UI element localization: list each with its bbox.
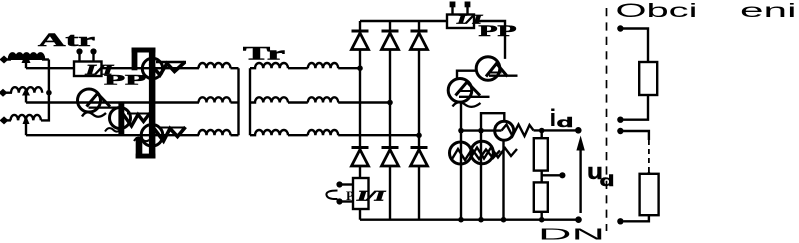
divider tap wire bbox=[542, 174, 563, 176]
load wire RL2 top bbox=[648, 172, 650, 174]
ammeter A2 bbox=[448, 79, 472, 103]
junction dot leg3 phase W bbox=[416, 133, 422, 139]
primary star wire W bbox=[231, 134, 239, 136]
svg-text:Tr: Tr bbox=[243, 44, 286, 65]
secondary wire W to bridge bbox=[338, 134, 419, 136]
wire L1 coil end to common node bbox=[42, 58, 49, 60]
svg-text:I/I: I/I bbox=[355, 189, 387, 205]
ammeter A left bbox=[78, 89, 101, 112]
secondary winding U coil 2 bbox=[308, 63, 338, 68]
svg-text:Obci: Obci bbox=[616, 0, 698, 22]
diode D5 cathode bar bbox=[411, 30, 428, 33]
transducer I/I input bbox=[74, 62, 102, 77]
junction dot leg2 phase V bbox=[387, 100, 393, 106]
svg-text:d: d bbox=[557, 114, 574, 130]
ammeter A left underline bbox=[89, 106, 117, 108]
transducer input stub 1 bbox=[78, 53, 80, 62]
bridge leg 2 bbox=[389, 21, 391, 220]
voltmeter V1 tilde bbox=[140, 75, 153, 78]
voltmeter V1 letter top bar bbox=[156, 61, 186, 63]
bridge top bus bbox=[360, 20, 448, 22]
ammeter A1 underline bbox=[489, 75, 518, 77]
panel bar: top bridge bbox=[132, 48, 156, 53]
bridge leg 1 bbox=[359, 21, 361, 178]
output rail phase V bbox=[26, 101, 199, 103]
junction dot bus divider bbox=[539, 217, 545, 223]
svg-text:i: i bbox=[550, 105, 557, 132]
junction dot common/L2 bbox=[46, 90, 52, 96]
panel bar: long post bbox=[149, 48, 156, 159]
output rail phase W bbox=[26, 134, 199, 136]
transducer bottom stub dot 1 bbox=[336, 181, 342, 187]
load terminal dot top bbox=[617, 25, 623, 31]
voltmeter V1 bbox=[142, 58, 162, 78]
diode D1 bbox=[352, 33, 369, 50]
ammeter A left tilde bbox=[82, 112, 106, 117]
secondary winding V coil 1 bbox=[250, 97, 288, 102]
wire bottom transducer to bus bbox=[359, 209, 361, 220]
junction dot id rail left bbox=[458, 128, 464, 134]
panel cup bottom bbox=[136, 154, 156, 159]
autotransformer winding L2 bbox=[11, 87, 42, 93]
ammeter A2 tilde bbox=[453, 102, 481, 107]
svg-text:eni: eni bbox=[740, 0, 797, 22]
voltmeter V1 letter bbox=[150, 62, 185, 75]
ud arrowhead bbox=[576, 136, 584, 151]
bus end dot bbox=[575, 216, 582, 223]
load wire bottom bbox=[624, 215, 649, 221]
shunt meter leg bbox=[502, 141, 504, 220]
wire top transducer to ammeter A1 bbox=[474, 21, 505, 59]
voltmeter V3 letter top bar bbox=[160, 127, 184, 129]
wire L1 input bbox=[7, 58, 11, 60]
junction dot divider top bbox=[539, 128, 545, 134]
svg-text:PP: PP bbox=[479, 23, 517, 40]
meter M1 bbox=[450, 142, 472, 164]
top transducer stub dot 2 bbox=[465, 2, 471, 8]
load terminal dot mid1 bbox=[617, 117, 623, 123]
transducer I/I bottom bbox=[353, 178, 369, 209]
shunt bypass wire bbox=[481, 113, 504, 130]
secondary winding V coil 2 bbox=[308, 97, 338, 102]
wire A1 to A2 bbox=[457, 71, 477, 79]
panel cup left leg bbox=[136, 137, 143, 159]
transducer bottom stub 2 bbox=[341, 200, 353, 202]
diode D3 cathode bar bbox=[382, 30, 399, 33]
id rail right segment bbox=[534, 129, 579, 131]
svg-text:Atr: Atr bbox=[38, 30, 96, 51]
divider tap dot bbox=[559, 172, 565, 178]
load wire mid bbox=[620, 131, 649, 140]
junction dot bus M2 bbox=[478, 217, 484, 223]
ammeter A1 bbox=[476, 57, 500, 81]
top transducer stub 2 bbox=[466, 6, 468, 15]
primary star wire V bbox=[231, 101, 239, 103]
transformer primary winding W bbox=[199, 130, 231, 135]
voltmeter V3 letter bbox=[154, 127, 186, 141]
transducer input stub 2 bbox=[92, 53, 94, 62]
junction dot bypass bbox=[478, 128, 484, 134]
shunt meter bbox=[495, 121, 514, 140]
transducer input stub dot 2 bbox=[90, 48, 96, 54]
voltmeter V2 letter top bar bbox=[127, 113, 148, 115]
secondary winding U coil 1 bbox=[250, 63, 288, 68]
meter M2 zigzag bbox=[471, 148, 517, 159]
junction dot bus M1 bbox=[458, 217, 464, 223]
common connection wire bbox=[41, 60, 49, 121]
bridge leg 3 bbox=[418, 21, 420, 220]
svg-text:PP: PP bbox=[104, 73, 146, 89]
resistor R2 divider bbox=[534, 182, 548, 211]
secondary winding W coil 2 bbox=[308, 130, 338, 135]
diode D4 bbox=[382, 150, 399, 167]
wire divider bottom bbox=[541, 212, 543, 220]
ammeter A2 letter bbox=[456, 82, 481, 96]
shunt resistor zigzag bbox=[502, 125, 534, 137]
autotransformer winding L1 bbox=[9, 53, 44, 59]
voltmeter V3 bbox=[141, 125, 163, 147]
diode D2 bbox=[352, 150, 369, 167]
primary star wire U bbox=[231, 67, 239, 69]
wire tap L3 bbox=[25, 124, 27, 136]
diode D4 cathode bar bbox=[382, 146, 399, 149]
voltmeter V3 tilde bbox=[134, 138, 151, 142]
wire L3 input bbox=[7, 119, 11, 121]
load wire top bbox=[620, 29, 648, 63]
load resistor RL1 bbox=[639, 62, 657, 95]
load terminal dot bottom bbox=[617, 218, 623, 224]
tap arrow L3 bbox=[23, 116, 30, 125]
tap arrow L1 bbox=[22, 53, 31, 64]
output rail phase U bbox=[26, 67, 199, 69]
svg-text:P: P bbox=[346, 188, 354, 203]
load dashed wire bbox=[648, 140, 650, 172]
secondary star bar bbox=[249, 68, 251, 135]
load resistor RL2 bbox=[640, 174, 659, 215]
secondary wire U bbox=[288, 67, 308, 69]
secondary winding W coil 1 bbox=[250, 130, 288, 135]
phase L1 input terminal bbox=[0, 56, 9, 64]
meter M1 leg bbox=[460, 131, 462, 220]
resistor R1 divider bbox=[534, 138, 548, 170]
transformer primary winding V bbox=[199, 97, 231, 102]
secondary wire U to bridge bbox=[338, 67, 360, 69]
diode D6 cathode bar bbox=[411, 146, 428, 149]
tap arrow L2 bbox=[22, 88, 30, 96]
ud arrow line bbox=[579, 149, 581, 213]
id rail end dot bbox=[575, 127, 582, 134]
load wire RL1 bottom bbox=[624, 95, 649, 120]
phase L2 input terminal bbox=[0, 89, 8, 97]
load terminal dot mid2 bbox=[617, 128, 623, 134]
wire between divider resistors bbox=[541, 171, 543, 183]
meter M2 leg bbox=[480, 131, 482, 220]
diode D3 bbox=[382, 33, 399, 50]
secondary wire V to bridge bbox=[338, 101, 390, 103]
boundary dashed line bbox=[606, 8, 608, 231]
diode D5 bbox=[411, 33, 428, 50]
wire A2 down to id rail bbox=[460, 102, 462, 131]
wire tap L2 bbox=[25, 95, 27, 103]
top transducer stub dot 1 bbox=[450, 2, 456, 8]
transducer input stub dot 1 bbox=[76, 48, 82, 54]
secondary wire V bbox=[288, 101, 308, 103]
diode D1 cathode bar bbox=[352, 30, 369, 33]
transducer bottom stub 1 bbox=[341, 183, 353, 185]
autotransformer winding L3 bbox=[11, 115, 41, 121]
wire tap L1 bbox=[25, 62, 27, 68]
svg-text:DN: DN bbox=[538, 227, 605, 243]
diode D6 bbox=[411, 150, 428, 167]
phase L3 input terminal bbox=[0, 116, 9, 124]
meter M2 bbox=[471, 141, 494, 164]
ammeter A2 underline bbox=[459, 96, 490, 98]
junction dot leg1 phase U bbox=[357, 65, 363, 71]
voltmeter V1 stub bar bbox=[118, 102, 124, 136]
panel bar: left post bbox=[132, 48, 138, 71]
bottom bus DN bbox=[360, 218, 579, 220]
junction dot bus shunt bbox=[501, 217, 507, 223]
top transducer stub 1 bbox=[451, 6, 453, 15]
voltmeter V2 bbox=[110, 108, 131, 129]
diode D2 cathode bar bbox=[352, 146, 369, 149]
ammeter A left letter bbox=[87, 94, 111, 107]
transducer bottom stub dot 2 bbox=[336, 198, 342, 204]
primary star bar bbox=[237, 68, 239, 135]
wire divider top bbox=[541, 131, 543, 139]
wire L2 input bbox=[6, 91, 12, 93]
meter M1 zigzag bbox=[452, 149, 500, 160]
curl mark bottom transducer bbox=[326, 191, 337, 200]
id rail left segment bbox=[461, 129, 502, 131]
transducer I/I top output bbox=[447, 15, 474, 29]
ammeter A1 letter bbox=[486, 64, 508, 77]
voltmeter V2 letter bbox=[123, 113, 150, 126]
secondary wire W bbox=[288, 134, 308, 136]
transformer primary winding U bbox=[199, 63, 231, 68]
voltmeter V2 tilde bbox=[105, 128, 121, 132]
